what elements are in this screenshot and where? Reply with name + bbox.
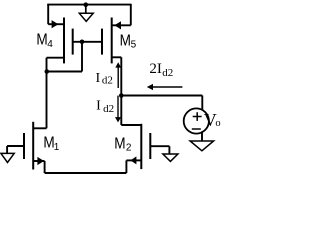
wire M2 gate ground stub [168,146,170,154]
wire M1 drain lead [33,127,46,129]
wire rail left drop to M4 source [47,4,49,24]
M5 source arrow (PMOS) [114,21,121,29]
transistor M5 gate bar [101,29,103,55]
wire below voltage source [201,132,203,142]
transistor M1 gate bar [23,133,25,159]
wire drop into voltage source [201,96,203,111]
voltage source plus sign [193,112,202,121]
ground M1 gate triangle [1,153,14,162]
node output junction dot [119,93,124,98]
transistor M5 channel bar [111,18,113,64]
node A junction dot [45,69,50,74]
label M5 [120,32,137,50]
transistor M2 gate bar [149,133,151,159]
transistor M1 channel bar [32,122,34,170]
transistor M4 gate bar [72,29,74,55]
current arrow Id2 down [115,96,121,123]
wire M1 gate ground stub [6,146,8,153]
transistor M4 channel bar [63,18,65,64]
wire M4 drain drop [46,58,48,72]
wire node A to M1 drain [46,72,48,129]
wire bottom tail rail [45,172,127,174]
svg-text:M: M [36,32,47,49]
svg-text:5: 5 [131,40,137,51]
wire M1 source lead [33,160,44,162]
wire supply symbol stub [85,5,87,14]
wire output node to source [121,95,202,97]
wire M5 drain lead [112,56,122,58]
svg-text:M: M [120,32,131,49]
label M1 [43,135,59,153]
wire rail right drop to M5 source [130,4,132,26]
wire gate bus M4-M5 [73,41,102,43]
wire M1 source drop [44,161,46,173]
node gate bus junction dot [80,40,85,45]
wire diode-connect vertical [81,42,83,72]
M4 source arrow (PMOS) [52,20,59,28]
svg-text:d2: d2 [103,103,114,115]
wire top supply rail [47,4,131,6]
label Id2 (lower) [96,99,114,116]
svg-text:d2: d2 [102,75,113,87]
wire M4 drain lead [47,57,65,59]
voltage source Vo circle [184,108,209,133]
svg-text:I: I [96,99,101,114]
ground M2 gate triangle [163,154,178,161]
current arrow Id2 up [115,62,121,88]
wire node A horizontal [47,71,83,73]
voltage source minus sign [192,128,201,130]
label Vo [204,110,221,130]
wire M2 source lead [126,159,141,161]
current arrow 2Id2 left [147,84,183,90]
svg-text:M: M [114,135,125,152]
wire M1 gate lead [7,145,24,147]
wire M4 source lead [48,23,64,25]
label M2 [114,135,132,153]
ground voltage source triangle [190,141,214,151]
label M4 [36,32,53,50]
label 2Id2 [149,61,173,79]
transistor M2 channel bar [140,124,142,169]
wire M5 source lead [112,24,131,26]
svg-text:1: 1 [54,142,60,153]
wire M2 gate lead [150,145,169,147]
M2 source arrow (NMOS) [130,156,136,164]
svg-text:2I: 2I [149,61,162,77]
svg-text:4: 4 [47,39,53,50]
svg-text:I: I [96,71,101,86]
svg-text:d2: d2 [162,67,173,79]
label Id2 (upper) [96,71,113,87]
svg-text:2: 2 [126,143,132,154]
node supply junction dot [84,2,89,7]
svg-text:o: o [215,118,220,129]
wire M2 source rise [125,160,127,173]
ground supply triangle (top) [79,13,93,21]
wire M2 drain lead [121,124,141,126]
M1 source arrow (NMOS) [37,157,44,165]
wire M5 drain to output node [120,57,122,125]
